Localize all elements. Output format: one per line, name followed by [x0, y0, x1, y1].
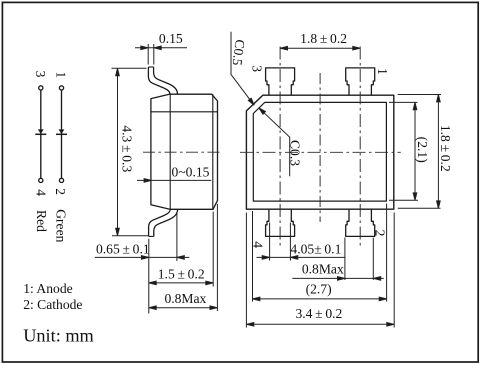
wire pin3-pin4 [40, 90, 42, 178]
side view center line [143, 151, 220, 153]
node pin 4 terminal [39, 178, 43, 182]
svg-text:2: 2 [372, 230, 387, 237]
dim 1.8±0.2 top (lead pitch) [280, 47, 360, 49]
dim 0.8Max (lead width) [292, 238, 384, 281]
dim (2.1) inner length [389, 102, 418, 200]
dim 4.3±0.3 (total height) [112, 68, 149, 235]
svg-text:1.5 ± 0.2: 1.5 ± 0.2 [158, 267, 205, 282]
dim 1.8±0.2 right (body length) [398, 95, 441, 209]
svg-text:3.4 ± 0.2: 3.4 ± 0.2 [295, 306, 342, 321]
svg-text:Red: Red [34, 210, 49, 232]
center line vertical middle [319, 73, 321, 222]
svg-text:3: 3 [33, 71, 48, 78]
top view inner outline [253, 102, 386, 201]
side view upper gull-wing lead [148, 66, 153, 68]
svg-text:1: 1 [375, 68, 390, 75]
dim 0.15 (lead thickness) [135, 44, 187, 65]
svg-text:2: 2 [53, 188, 68, 195]
lead pin 4 (bottom left) [266, 209, 295, 236]
dim 4.05±0.1 [257, 223, 345, 261]
svg-text:C0.3: C0.3 [288, 140, 303, 166]
dim 3.4±0.2 (body width) [246, 213, 394, 328]
svg-text:0.65 ± 0.1: 0.65 ± 0.1 [96, 242, 150, 257]
svg-text:4: 4 [33, 189, 48, 196]
top view body outline (chamfered corner) [246, 95, 393, 209]
svg-text:Unit: mm: Unit: mm [23, 325, 94, 345]
svg-text:0.15: 0.15 [159, 31, 183, 46]
svg-text:4.05± 0.1: 4.05± 0.1 [290, 241, 341, 256]
lead pin 2 (bottom right) [346, 209, 375, 236]
dim 0.8Max (overall width) [149, 204, 218, 311]
lead pin 3 (top left) [266, 68, 295, 95]
svg-text:4.3 ± 0.3: 4.3 ± 0.3 [120, 125, 135, 172]
node pin 1 terminal [59, 86, 63, 90]
side view body mold line (cap bottom) [151, 111, 218, 113]
svg-text:4: 4 [251, 241, 266, 248]
chamfer callout C0.5 [231, 32, 254, 105]
center line horizontal [240, 151, 401, 153]
svg-text:(2.1): (2.1) [414, 137, 430, 163]
side view package body outline [151, 94, 218, 209]
svg-text:1.8 ± 0.2: 1.8 ± 0.2 [438, 125, 453, 172]
svg-text:1: Anode: 1: Anode [23, 281, 72, 296]
wire pin1-pin2 [61, 90, 63, 178]
dim 0.65±0.1 (lead foot) [95, 213, 190, 314]
svg-text:2: Cathode: 2: Cathode [23, 297, 82, 312]
svg-text:Green: Green [54, 209, 69, 242]
node pin 2 terminal [59, 178, 63, 182]
svg-text:0.8Max: 0.8Max [302, 261, 344, 276]
dim (2.7) [253, 204, 387, 302]
svg-text:3: 3 [249, 65, 264, 72]
node pin 3 terminal [39, 86, 43, 90]
dim 1.5±0.2 (body width) [149, 212, 213, 287]
diode D2 (green LED) [56, 129, 67, 134]
svg-text:1.8 ± 0.2: 1.8 ± 0.2 [300, 31, 347, 46]
side view inner edge line right [212, 94, 214, 209]
chamfer callout C0.3 [259, 108, 290, 177]
svg-text:0~0.15: 0~0.15 [172, 165, 210, 180]
diode D1 (red LED) [35, 129, 46, 134]
svg-text:0.8Max: 0.8Max [164, 291, 206, 306]
center line vertical right lead column [359, 47, 361, 248]
lead pin 1 (top right) [346, 68, 375, 95]
center line vertical left lead column [279, 47, 281, 248]
svg-text:(2.7): (2.7) [306, 282, 332, 298]
svg-text:C0.5: C0.5 [230, 39, 248, 67]
dim 0~0.15 (stand-off) [137, 179, 211, 181]
side view inner edge line left [169, 94, 171, 209]
svg-text:1: 1 [54, 71, 69, 78]
side view lower gull-wing lead [149, 235, 154, 237]
